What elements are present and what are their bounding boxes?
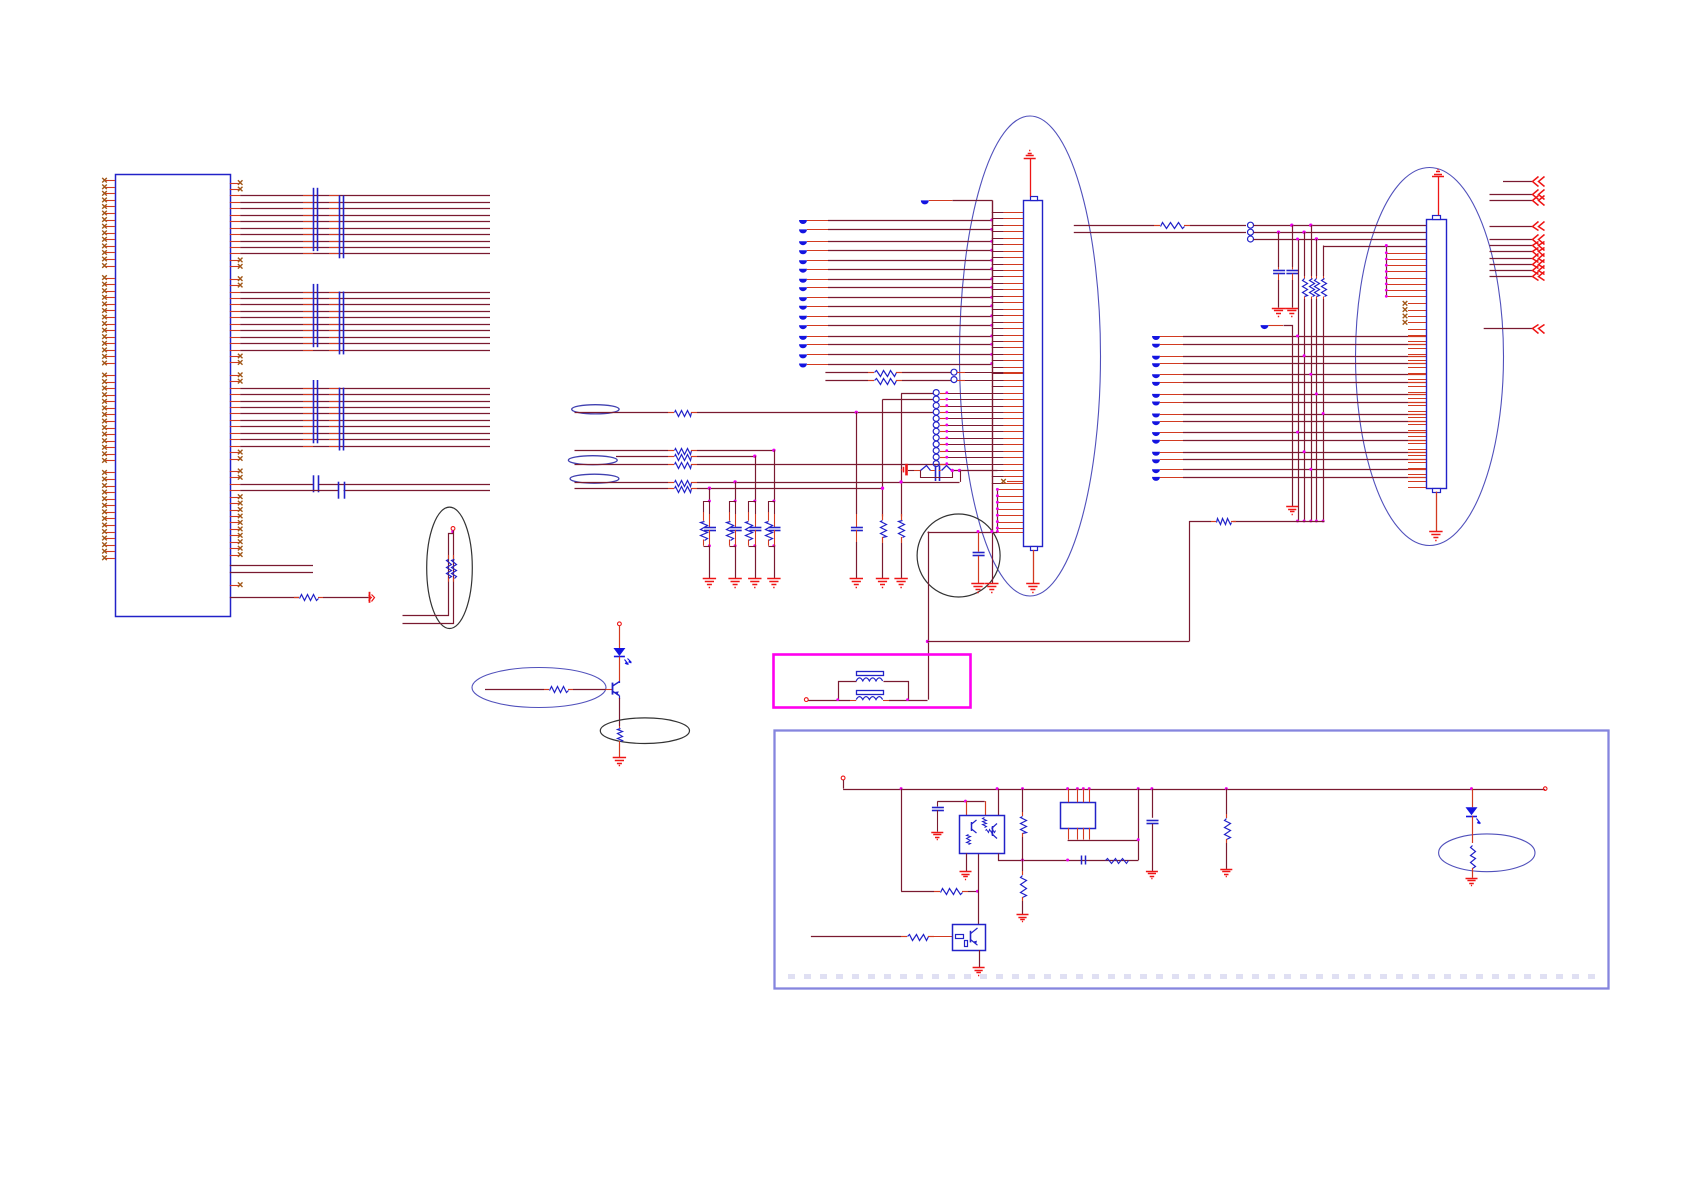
J1 pin — [992, 231, 1004, 233]
wire — [403, 531, 454, 624]
junction — [990, 267, 993, 270]
wire — [839, 682, 857, 701]
J1 pin — [992, 373, 1004, 375]
resistor — [901, 514, 903, 520]
U1 left pin 12 (no connect) — [105, 252, 115, 254]
RP pin lead — [303, 337, 313, 339]
off-page wire — [1490, 226, 1533, 228]
jumper ring — [933, 422, 939, 428]
U1 left pin 18 (no connect) — [105, 297, 115, 299]
U1 left pin 31 (no connect) — [105, 388, 115, 390]
junction — [990, 249, 993, 252]
junction — [990, 324, 993, 327]
port P5 — [1543, 787, 1547, 791]
capacitor — [856, 514, 858, 527]
wire — [709, 488, 711, 501]
RP pin lead — [303, 221, 313, 223]
resistor — [1311, 276, 1313, 279]
junction — [990, 277, 993, 280]
off-page arrow — [1533, 190, 1539, 200]
U1 left pin 37 (no connect) — [105, 428, 115, 430]
U1 left pin 26 (no connect) — [105, 350, 115, 352]
U1 left pin 40 (no connect) — [105, 447, 115, 449]
wire — [230, 407, 240, 409]
transistor Q2 — [953, 925, 986, 951]
ferrite bead — [1152, 374, 1160, 378]
wire — [1278, 280, 1280, 308]
junction — [1470, 787, 1473, 790]
RP pin lead — [303, 202, 313, 204]
RP pin lead — [303, 228, 313, 230]
wire — [1160, 363, 1183, 365]
junction — [1076, 787, 1079, 790]
wire — [825, 380, 868, 382]
ground — [613, 757, 626, 759]
wire — [774, 546, 776, 579]
wire — [908, 470, 914, 472]
J1 pin — [992, 483, 1004, 485]
wire — [808, 700, 850, 702]
port ellipse E1 — [572, 405, 619, 414]
U1 right pin (no connect) — [230, 471, 240, 473]
J1 pin — [997, 502, 1023, 504]
ferrite bead — [799, 306, 807, 310]
wire — [1089, 828, 1091, 840]
resistor pack RP bars A — [313, 284, 315, 347]
J1 pin — [940, 406, 948, 408]
off-page wire — [1490, 270, 1533, 272]
wire — [1033, 550, 1035, 583]
junction — [996, 507, 999, 510]
J2 pin — [1408, 443, 1426, 445]
ground — [850, 578, 863, 580]
wire — [1160, 356, 1183, 358]
junction — [708, 500, 711, 503]
transistor Q1 — [612, 683, 614, 695]
U1 left pin 41 (no connect) — [105, 454, 115, 456]
ground — [1017, 914, 1029, 916]
resistor — [934, 891, 940, 893]
junction — [996, 520, 999, 523]
wire — [1160, 344, 1183, 346]
U1 left pin 43 (no connect) — [105, 472, 115, 474]
wire — [966, 853, 968, 871]
U1 right pin (no connect) — [230, 516, 240, 518]
wire — [1226, 789, 1228, 814]
wire — [697, 456, 755, 458]
wire — [230, 253, 240, 255]
junction — [1225, 787, 1228, 790]
U1 left pin 7 (no connect) — [105, 220, 115, 222]
wire — [807, 336, 828, 338]
J2 pin — [1408, 379, 1426, 381]
wire — [1304, 232, 1306, 276]
wire — [1160, 374, 1183, 376]
resistor — [294, 597, 299, 599]
junction — [951, 469, 954, 472]
bus wire — [992, 200, 994, 531]
capacitor — [937, 802, 939, 807]
connector J1 — [1024, 201, 1043, 547]
capacitor C of RC — [755, 501, 757, 514]
U1 left pin 20 (no connect) — [105, 310, 115, 312]
wire — [575, 482, 669, 484]
J1 pin — [997, 509, 1023, 511]
J1 pin — [940, 393, 948, 395]
jumper ring — [1248, 236, 1254, 242]
RP pin lead — [303, 324, 313, 326]
jumper ring — [951, 369, 957, 375]
off-page wire — [1490, 200, 1533, 202]
U1 left pin 15 (no connect) — [105, 278, 115, 280]
port ellipse E2 — [568, 456, 617, 465]
port P3 — [804, 698, 808, 702]
wire — [882, 543, 884, 579]
junction — [836, 698, 839, 701]
junction — [1385, 258, 1388, 261]
U1 right pin (no connect) — [230, 356, 240, 358]
RP pin lead — [303, 388, 313, 390]
ferrite bead — [799, 344, 807, 348]
wire — [1160, 432, 1183, 434]
junction — [990, 334, 993, 337]
junction — [1322, 412, 1325, 415]
J2 pin — [1386, 296, 1426, 298]
ferrite bead — [799, 250, 807, 254]
capacitor — [313, 475, 315, 492]
wire — [1074, 232, 1246, 234]
ferrite bead — [1152, 363, 1160, 367]
U1 left pin 47 (no connect) — [105, 499, 115, 501]
off-page arrow — [1533, 272, 1539, 281]
RP pin lead — [303, 413, 313, 415]
inductor L2 — [857, 691, 884, 695]
ground — [973, 967, 985, 969]
junction — [1137, 787, 1140, 790]
wire — [230, 311, 240, 313]
junction — [1088, 787, 1091, 790]
resistor — [1226, 814, 1228, 818]
junction — [990, 228, 993, 231]
wire — [697, 464, 960, 466]
ellipse emitter — [600, 718, 689, 744]
junction — [899, 480, 902, 483]
jumper ring — [1248, 222, 1254, 228]
resistor pack RP bars B — [339, 388, 341, 451]
U1 left pin 21 (no connect) — [105, 317, 115, 319]
ground — [1146, 871, 1158, 873]
wire — [619, 626, 621, 648]
jumper ring — [933, 461, 939, 467]
J1 pin — [997, 522, 1023, 524]
J1 pin — [992, 283, 1004, 285]
jumper ring — [1248, 229, 1254, 235]
U1 left pin 52 (no connect) — [105, 532, 115, 534]
wire — [230, 484, 240, 486]
ground — [1429, 531, 1442, 533]
J1 pin — [992, 251, 1004, 253]
wire — [957, 380, 965, 382]
wire — [1074, 225, 1154, 227]
bus wire — [1386, 246, 1388, 297]
junction — [990, 314, 993, 317]
wire — [1189, 521, 1191, 641]
RP pin lead — [303, 446, 313, 448]
RP pin lead — [303, 407, 313, 409]
J2 pin — [1408, 474, 1426, 476]
wire — [230, 298, 240, 300]
off-page wire — [1490, 264, 1533, 266]
J1 pin — [992, 309, 1004, 311]
rail wire — [843, 780, 845, 789]
wire — [1160, 336, 1183, 338]
J1 pin — [992, 276, 1004, 278]
ferrite bead — [1261, 325, 1269, 329]
junction — [990, 530, 993, 533]
wire — [928, 532, 998, 534]
U1 right pin (no connect) — [230, 522, 240, 524]
wire — [230, 433, 240, 435]
wire — [230, 426, 240, 428]
J2 pin — [1386, 271, 1426, 273]
junction — [990, 219, 993, 222]
jumper ring — [933, 396, 939, 402]
U1 left pin 13 (no connect) — [105, 259, 115, 261]
off-page wire — [1490, 194, 1533, 196]
ground — [1466, 878, 1478, 880]
junction — [990, 240, 993, 243]
ferrite bead — [799, 269, 807, 273]
wire — [774, 450, 776, 501]
jumper ring — [933, 409, 939, 415]
ferrite bead — [1152, 356, 1160, 360]
wire — [1160, 402, 1183, 404]
wire — [230, 202, 240, 204]
RP pin lead — [303, 195, 313, 197]
junction — [1385, 289, 1388, 292]
wire — [807, 344, 828, 346]
wire — [1278, 232, 1280, 267]
wire — [929, 200, 953, 202]
jumper ring — [933, 403, 939, 409]
wire — [1160, 477, 1183, 479]
ferrite bead — [1152, 394, 1160, 398]
resistor — [882, 514, 884, 520]
J1 pin (no connect) — [1007, 481, 1023, 483]
resistor pack RP bars A — [313, 380, 315, 443]
resistor — [1304, 276, 1306, 279]
U1 left pin 14 (no connect) — [105, 266, 115, 268]
J1 pin — [997, 515, 1023, 517]
RP pin lead — [303, 311, 313, 313]
resistor — [1022, 871, 1024, 875]
U1 left pin 36 (no connect) — [105, 421, 115, 423]
wire — [619, 698, 621, 726]
U1 right pin (no connect) — [230, 548, 240, 550]
resistor — [1154, 225, 1160, 227]
J1 pin — [992, 470, 1004, 472]
wire — [616, 456, 668, 458]
wire — [825, 372, 868, 374]
wire — [1138, 789, 1140, 860]
junction — [1137, 838, 1140, 841]
junction — [996, 488, 999, 491]
J2 pin — [1408, 424, 1426, 426]
J2 pin — [1408, 481, 1426, 483]
RP pin lead — [303, 234, 313, 236]
ground — [748, 578, 761, 580]
bus wire — [1304, 299, 1306, 521]
wire — [951, 470, 998, 472]
wire — [978, 853, 980, 924]
resistor — [1022, 812, 1024, 816]
wire — [807, 306, 828, 308]
U1 right pin (no connect) — [230, 535, 240, 537]
J1 pin — [992, 257, 1004, 259]
ferrite bead — [799, 354, 807, 358]
junction — [996, 494, 999, 497]
junction — [772, 500, 775, 503]
RP pin lead — [303, 247, 313, 249]
wire — [928, 532, 930, 700]
U1 left pin 11 (no connect) — [105, 246, 115, 248]
off-page wire — [1490, 251, 1533, 253]
J1 pin — [940, 425, 948, 427]
junction — [753, 500, 756, 503]
wire — [230, 420, 240, 422]
wire — [1323, 246, 1426, 248]
wire — [230, 330, 240, 332]
J2 pin — [1408, 468, 1426, 470]
wire — [901, 891, 934, 893]
resistor R(GL) b — [453, 555, 455, 559]
wire — [230, 241, 240, 243]
ellipse LED resistor — [1439, 834, 1535, 872]
J2 pin — [1408, 411, 1426, 413]
junction — [1315, 520, 1318, 523]
J1 pin — [992, 218, 1004, 220]
wire — [1022, 789, 1024, 812]
capacitor — [1292, 267, 1294, 269]
wire — [1472, 789, 1474, 808]
wire — [901, 393, 933, 395]
J1 pin — [940, 418, 948, 420]
resistor R of RC — [704, 502, 710, 513]
J1 pin — [992, 386, 1004, 388]
J2 pin — [1408, 348, 1426, 350]
ferrite bead — [799, 241, 807, 245]
ferrite bead — [1152, 336, 1160, 340]
J1 pin — [992, 225, 1004, 227]
junction — [1385, 251, 1388, 254]
wire — [230, 388, 240, 390]
U1 left pin 29 (no connect) — [105, 375, 115, 377]
wire — [709, 546, 711, 579]
wire — [403, 534, 454, 616]
wire — [1311, 225, 1313, 276]
junction — [990, 259, 993, 262]
U1 left pin 33 (no connect) — [105, 401, 115, 403]
J2 pin — [1386, 259, 1426, 261]
J2 pin — [1408, 341, 1426, 343]
J2 pin — [1408, 335, 1426, 337]
RP pin lead — [303, 241, 313, 243]
RP pin lead — [303, 394, 313, 396]
wire — [230, 208, 240, 210]
J1 pin — [992, 296, 1004, 298]
RP pin lead — [303, 420, 313, 422]
J1 pin — [992, 244, 1004, 246]
U1 left pin 8 (no connect) — [105, 226, 115, 228]
wire — [968, 891, 978, 893]
J2 pin — [1408, 449, 1426, 451]
resistor pack RP bars B — [339, 292, 341, 355]
junction — [1315, 392, 1318, 395]
wire — [807, 269, 828, 271]
U1 right pin (no connect) — [230, 452, 240, 454]
U1 right pin (no connect) — [230, 585, 240, 587]
wire — [807, 354, 828, 356]
U1 left pin 45 (no connect) — [105, 486, 115, 488]
bus wire — [1316, 299, 1318, 521]
ground — [985, 583, 998, 585]
wire — [1233, 521, 1325, 523]
wire — [1068, 840, 1139, 842]
wire — [230, 439, 240, 441]
junction — [734, 500, 737, 503]
power arrow symbol — [369, 592, 371, 603]
resistor — [868, 380, 874, 382]
U1 left pin 5 (no connect) — [105, 206, 115, 208]
wire — [1083, 789, 1085, 803]
U1 left pin 35 (no connect) — [105, 414, 115, 416]
wire — [1189, 521, 1211, 523]
wire — [1022, 901, 1024, 914]
wire — [999, 854, 1139, 861]
ground — [931, 832, 943, 834]
J1 pin — [997, 528, 1023, 530]
wire — [1254, 239, 1427, 241]
wire — [1269, 325, 1284, 327]
wire — [807, 364, 828, 366]
junction — [708, 487, 711, 490]
wire — [230, 304, 240, 306]
wire — [960, 470, 962, 482]
J1 pin — [940, 399, 948, 401]
connector J2 — [1427, 220, 1447, 489]
wire — [1022, 837, 1024, 871]
jack J — [905, 464, 908, 476]
junction — [1296, 335, 1299, 338]
junction — [1322, 520, 1325, 523]
junction — [990, 353, 993, 356]
U1 left pin 6 (no connect) — [105, 213, 115, 215]
J1 pin — [940, 431, 948, 433]
U1 right pin (no connect) — [230, 285, 240, 287]
U1 left pin 48 (no connect) — [105, 505, 115, 507]
junction — [1082, 787, 1085, 790]
junction — [1385, 270, 1388, 273]
wire — [807, 316, 828, 318]
RP pin lead — [303, 433, 313, 435]
junction — [1309, 468, 1312, 471]
J2 pin — [1408, 392, 1426, 394]
ferrite bead — [1152, 382, 1160, 386]
U1 left pin 1 (no connect) — [105, 180, 115, 182]
wire — [937, 801, 984, 803]
ferrite bead — [1152, 440, 1160, 444]
ferrite bead — [799, 287, 807, 291]
